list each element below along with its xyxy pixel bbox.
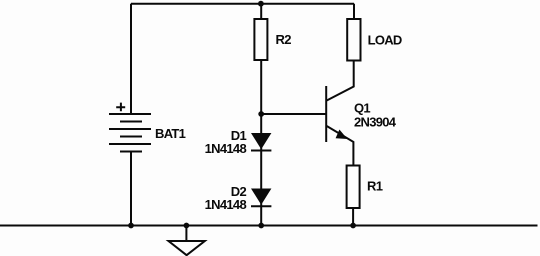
svg-text:1N4148: 1N4148: [205, 197, 247, 212]
svg-text:LOAD: LOAD: [368, 33, 402, 48]
svg-text:2N3904: 2N3904: [354, 114, 397, 129]
svg-text:R2: R2: [276, 32, 292, 47]
svg-text:Q1: Q1: [354, 100, 370, 115]
svg-text:BAT1: BAT1: [155, 126, 186, 141]
svg-text:1N4148: 1N4148: [205, 141, 247, 156]
svg-text:R1: R1: [367, 179, 383, 194]
